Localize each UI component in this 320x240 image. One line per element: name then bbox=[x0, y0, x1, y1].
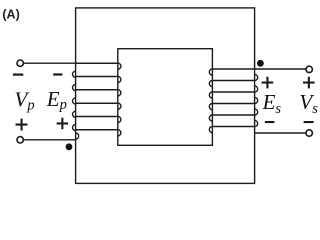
polarity mark: plus, secondary coil side top bbox=[262, 77, 274, 89]
wire: primary top feed bbox=[23, 62, 75, 64]
secondary winding wrap-around loops, left edge bbox=[209, 69, 212, 133]
polarity mark: minus, primary coil side top bbox=[53, 73, 62, 75]
terminal: primary bottom bbox=[17, 137, 23, 143]
svg-text:Vs: Vs bbox=[299, 90, 318, 117]
polarity mark: minus, secondary coil side bottom bbox=[265, 121, 275, 123]
terminal: primary top bbox=[17, 60, 23, 66]
terminal: secondary top bbox=[306, 66, 312, 72]
wire: secondary top feed bbox=[255, 68, 307, 70]
transformer core inner window bbox=[118, 49, 213, 146]
polarity dot, primary (bottom) bbox=[66, 143, 73, 150]
secondary winding wrap-around loops, right edge bbox=[255, 74, 258, 126]
primary winding wrap-around loops, left edge bbox=[73, 71, 79, 139]
wire: primary bottom feed bbox=[23, 139, 75, 141]
polarity dot, secondary (top) bbox=[257, 60, 264, 67]
polarity mark: plus, primary terminal side bottom bbox=[16, 119, 28, 131]
primary winding wrap-around loops, right edge bbox=[118, 63, 121, 136]
polarity mark: plus, primary coil side bottom bbox=[57, 118, 69, 130]
svg-text:Es: Es bbox=[262, 90, 282, 117]
polarity mark: minus, primary terminal side top bbox=[13, 74, 23, 76]
svg-text:(A): (A) bbox=[2, 8, 19, 22]
svg-text:Vp: Vp bbox=[15, 87, 35, 113]
transformer core outer outline bbox=[76, 8, 255, 184]
polarity mark: minus, secondary terminal side bottom bbox=[304, 121, 314, 123]
terminal: secondary bottom bbox=[306, 130, 312, 136]
svg-text:Ep: Ep bbox=[46, 87, 67, 113]
wire: secondary bottom feed bbox=[255, 132, 307, 134]
secondary winding turns (6 rungs across right limb) bbox=[212, 69, 254, 127]
polarity mark: plus, secondary terminal side top bbox=[303, 77, 315, 89]
primary winding turns (6 rungs across left limb) bbox=[76, 63, 118, 130]
